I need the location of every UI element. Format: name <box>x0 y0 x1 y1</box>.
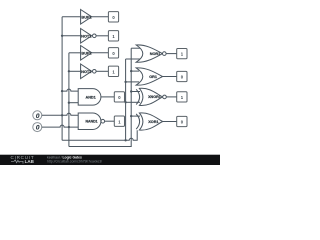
svg-text:AND1: AND1 <box>85 95 95 99</box>
or gate OR1 <box>136 68 162 85</box>
wire: NOR1 lower input stub <box>126 58 140 60</box>
xor gate XOR1 <box>136 113 162 130</box>
svg-text:1: 1 <box>118 119 121 124</box>
junction on right riser at XOR1 upper <box>130 115 132 117</box>
svg-text:BUF1: BUF1 <box>81 14 92 19</box>
wire: NOT1 input stub <box>62 35 81 37</box>
wire: XNOR1 upper input stub <box>131 91 140 93</box>
junction on A bottom horizontal at left riser <box>124 139 126 141</box>
junction on B bus at AND1 lower <box>68 102 70 104</box>
wire: AND1 upper input stub with hop over B bus <box>62 89 78 91</box>
junction on B bus at NOT2 <box>68 70 70 72</box>
wire: XNOR1 output <box>166 96 176 98</box>
and gate AND1 <box>78 89 101 106</box>
svg-text:0: 0 <box>181 75 184 80</box>
wire: BUF1 output <box>92 16 109 18</box>
svg-text:LAB: LAB <box>25 159 35 164</box>
indicator box AND1 output value 0 <box>114 92 124 102</box>
wire: BUF2 output <box>92 52 109 54</box>
wire: XOR1 upper input stub <box>131 115 140 117</box>
junction on A bus at NOT1 <box>61 35 63 37</box>
svg-text:XOR1: XOR1 <box>148 120 158 124</box>
wire: NOR1 output <box>166 53 177 55</box>
footer logo waveform <box>11 160 23 164</box>
wire: NOT1 output <box>96 35 108 37</box>
svg-text:OR1: OR1 <box>149 75 157 79</box>
inverter NOT2 <box>81 64 97 79</box>
wire: B bottom horizontal and right riser (B) <box>69 48 131 146</box>
svg-text:1: 1 <box>181 52 184 57</box>
svg-text:NOT1: NOT1 <box>81 33 92 38</box>
indicator box NOR1 output value 1 <box>177 48 187 58</box>
inverter NOT1 <box>81 29 97 44</box>
svg-text:0: 0 <box>181 120 184 125</box>
svg-text:XNOR1: XNOR1 <box>148 95 161 99</box>
wire: A bus vertical <box>61 17 63 141</box>
indicator box NOT2 output value 1 <box>108 66 118 76</box>
footer bar <box>0 155 220 165</box>
indicator box BUF1 output value 0 <box>108 12 118 22</box>
wire: B bus vertical <box>68 53 70 147</box>
xnor gate XNOR1 <box>136 88 166 105</box>
junction on A bus at V1 wire <box>61 114 63 116</box>
wire: NOT2 input stub <box>69 70 81 72</box>
svg-text:0: 0 <box>112 15 115 20</box>
buffer BUF2 <box>81 46 93 61</box>
svg-text:NOR1: NOR1 <box>150 52 161 56</box>
indicator box XNOR1 output value 1 <box>177 92 187 102</box>
wire: BUF2 input stub <box>69 52 81 54</box>
wire: BUF1 input stub <box>62 16 81 18</box>
junction on left riser at XNOR1 lower <box>124 101 126 103</box>
nor gate NOR1 <box>136 45 166 62</box>
digital source V1 <box>33 111 42 120</box>
indicator box OR1 output value 0 <box>177 71 187 81</box>
svg-text:0: 0 <box>36 113 40 120</box>
wire: NOR1 upper input stub <box>131 47 140 49</box>
svg-text:1: 1 <box>112 69 115 74</box>
svg-text:0: 0 <box>36 125 40 132</box>
svg-text:0: 0 <box>112 51 115 56</box>
wire: OR1 output <box>163 76 177 78</box>
svg-text:1: 1 <box>112 34 115 39</box>
wire: NOT2 output <box>96 70 108 72</box>
indicator box NAND1 output value 1 <box>114 116 124 126</box>
wire: AND1 output <box>101 96 114 98</box>
indicator box BUF2 output value 0 <box>108 48 118 58</box>
junction on right riser at OR1 upper <box>130 70 132 72</box>
wire: V2 to NAND1 lower input with hop over A bus <box>42 125 78 127</box>
junction on left riser at OR1 lower <box>124 81 126 83</box>
digital source V2 <box>33 123 42 132</box>
wire: A bottom horizontal with hop over right riser, hook up to XOR1 lower input <box>62 130 137 140</box>
wire: OR1 upper input stub <box>131 70 139 72</box>
junction on right riser at XNOR1 upper <box>130 90 132 92</box>
svg-text:NOT2: NOT2 <box>81 69 92 74</box>
buffer BUF1 <box>81 10 93 25</box>
svg-text:http://circuitlab.com/c9h79h7e: http://circuitlab.com/c9h79h7eaxke3/ <box>47 160 102 164</box>
wire: AND1 lower input stub <box>69 102 78 104</box>
wire: left riser (A) <box>125 59 127 140</box>
wire: OR1 lower input stub <box>126 81 139 83</box>
nand gate NAND1 <box>78 113 104 130</box>
indicator box NOT1 output value 1 <box>108 31 118 41</box>
svg-text:BUF2: BUF2 <box>81 50 92 55</box>
indicator box XOR1 output value 0 <box>177 116 187 126</box>
junction on B bus at V2 wire <box>68 126 70 128</box>
wire: XNOR1 lower input stub <box>126 101 140 103</box>
svg-text:1: 1 <box>181 95 184 100</box>
wire: NAND1 output <box>105 120 115 122</box>
wire: XOR1 output <box>163 121 177 123</box>
wire: V1 to NAND1 upper input with hop over B bus <box>42 113 78 115</box>
svg-text:NAND1: NAND1 <box>86 120 98 124</box>
svg-text:0: 0 <box>118 95 121 100</box>
junction on A bus at AND1 upper <box>61 90 63 92</box>
